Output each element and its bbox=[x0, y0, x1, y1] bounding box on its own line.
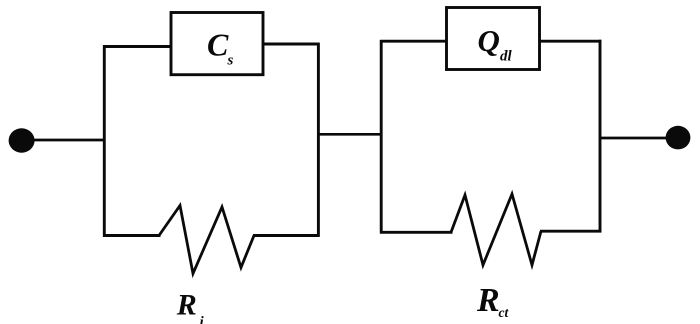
wire: right block right vertical bbox=[599, 40, 602, 233]
wire: left block top-left horizontal to Cs bbox=[103, 45, 171, 48]
svg-text:C: C bbox=[207, 27, 229, 63]
wire: left terminal to left block bbox=[28, 139, 106, 142]
resistor Rct zigzag bbox=[451, 194, 541, 265]
wire: left block left vertical bbox=[103, 45, 106, 237]
svg-text:dl: dl bbox=[500, 48, 513, 64]
left terminal node bbox=[9, 128, 35, 152]
wire: middle series link bbox=[317, 133, 383, 136]
wire: right block top-left horizontal to Qdl bbox=[380, 40, 447, 43]
wire: left block right vertical bbox=[317, 43, 320, 237]
wire: left block top-right horizontal from Cs bbox=[263, 43, 320, 46]
resistor Ri zigzag bbox=[159, 206, 254, 274]
CPE Qdl box bbox=[447, 8, 540, 70]
wire: right block bottom-right horizontal bbox=[540, 230, 602, 233]
svg-text:Q: Q bbox=[478, 23, 500, 58]
capacitor Cs box bbox=[171, 13, 263, 75]
right terminal node bbox=[666, 126, 691, 150]
wire: left block bottom-left horizontal bbox=[103, 234, 161, 237]
svg-text:R: R bbox=[476, 282, 500, 319]
wire: right block top-right horizontal from Qdl bbox=[539, 40, 602, 43]
wire: right block left vertical bbox=[380, 40, 383, 233]
svg-text:s: s bbox=[227, 53, 234, 69]
wire: right block bottom-left horizontal bbox=[380, 231, 453, 234]
wire: left block bottom-right horizontal bbox=[253, 234, 320, 237]
svg-text:R: R bbox=[176, 289, 197, 322]
svg-text:ct: ct bbox=[499, 305, 510, 320]
wire: right block to right terminal bbox=[599, 137, 672, 140]
